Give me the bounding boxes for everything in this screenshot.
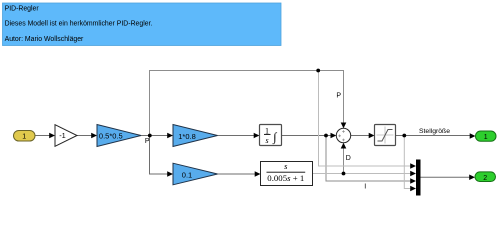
svg-text:1: 1 — [484, 134, 488, 141]
svg-text:0.005s + 1: 0.005s + 1 — [267, 173, 304, 183]
svg-text:Dieses Modell ist ein herkömml: Dieses Modell ist ein herkömmlicher PID-… — [5, 21, 153, 28]
svg-text:-1: -1 — [59, 131, 66, 140]
svg-text:D: D — [346, 155, 351, 162]
svg-text:s: s — [265, 136, 268, 145]
svg-text:P: P — [145, 138, 150, 145]
svg-text:0.1: 0.1 — [182, 170, 192, 179]
svg-text:0.5*0.5: 0.5*0.5 — [99, 131, 123, 140]
svg-text:Stellgröße: Stellgröße — [419, 128, 450, 135]
svg-text:2: 2 — [483, 175, 487, 182]
svg-text:I: I — [364, 184, 366, 191]
svg-text:1: 1 — [22, 134, 26, 141]
svg-text:Autor: Mario Wollschläger: Autor: Mario Wollschläger — [5, 36, 84, 43]
svg-text:1*0.8: 1*0.8 — [178, 132, 196, 141]
svg-text:P: P — [336, 93, 341, 100]
svg-text:PID-Regler: PID-Regler — [5, 5, 40, 12]
svg-text:∫: ∫ — [272, 130, 277, 145]
